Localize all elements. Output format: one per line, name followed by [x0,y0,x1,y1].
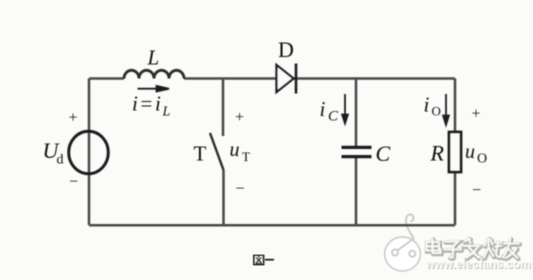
svg-text:i: i [155,92,161,116]
svg-text:u: u [230,139,240,161]
svg-text:T: T [194,142,207,166]
svg-text:d: d [57,153,64,168]
svg-text:i: i [424,93,430,117]
svg-text:+: + [69,110,78,127]
svg-text:−: − [69,174,78,191]
svg-text:L: L [162,105,171,120]
svg-text:R: R [430,141,445,166]
svg-text:−: − [472,182,481,199]
svg-text:O: O [432,104,441,119]
svg-text:i: i [320,97,326,121]
svg-text:L: L [147,46,160,70]
svg-text:T: T [242,149,250,164]
svg-text:C: C [328,109,339,125]
svg-text:−: − [236,181,245,198]
svg-text:+: + [472,106,481,123]
svg-text:i: i [132,92,138,116]
svg-text:=: = [141,92,153,116]
svg-text:www.elecfans.com: www.elecfans.com [425,257,531,271]
svg-text:u: u [465,141,475,163]
svg-text:+: + [235,109,244,126]
svg-text:C: C [376,141,391,166]
svg-text:D: D [278,37,294,62]
svg-text:O: O [477,152,487,167]
